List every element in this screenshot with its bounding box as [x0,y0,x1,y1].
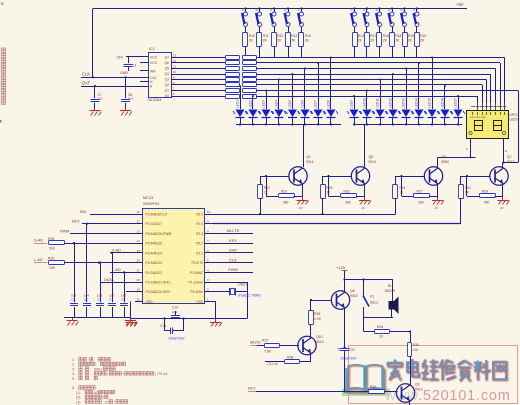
svg-text::: : [96,363,97,367]
svg-text:DAT: DAT [82,81,91,86]
svg-text:C14: C14 [172,306,178,310]
svg-text:+12V: +12V [336,265,346,270]
svg-text:VCC: VCC [150,56,158,60]
svg-text:PWM: PWM [60,229,69,233]
svg-text:GND: GND [120,71,128,75]
svg-text:12: 12 [137,220,141,224]
svg-text:C9: C9 [350,348,354,352]
svg-text:LED1: LED1 [236,100,240,108]
svg-text:DAT: DAT [229,248,237,253]
svg-text:R20: R20 [420,34,426,38]
svg-text:LED10: LED10 [363,98,367,108]
svg-text:/70 uA: /70 uA [157,372,168,376]
svg-text:S: S [351,8,353,12]
svg-text:LED8: LED8 [327,100,331,108]
svg-text:R23: R23 [281,190,287,194]
svg-text:100uF/16V: 100uF/16V [168,337,185,341]
svg-text:C5: C5 [121,298,125,302]
svg-text:P0.6/ADC6-PWM: P0.6/ADC6-PWM [146,232,172,236]
svg-text:8550: 8550 [442,160,450,164]
svg-text:S: S [298,8,300,12]
svg-text:LED13: LED13 [402,98,406,108]
svg-text:9015: 9015 [350,294,358,298]
svg-text:P0.2/ADC2: P0.2/ADC2 [146,271,163,275]
svg-text:P0.7/ADC7: P0.7/ADC7 [146,222,163,226]
svg-text:(T)2.4V: (T)2.4V [267,362,279,366]
svg-text:20: 20 [105,400,109,404]
svg-text:12: 12 [173,59,177,63]
svg-text:P2.5: P2.5 [196,213,203,217]
svg-text:140: 140 [413,348,419,352]
svg-text:8Ω/2W: 8Ω/2W [385,289,395,293]
svg-text:10K: 10K [49,247,56,251]
svg-text:1.2K: 1.2K [314,317,322,321]
svg-text:19: 19 [137,288,141,292]
svg-text:R38: R38 [287,356,293,360]
svg-text:104: 104 [172,310,177,314]
svg-text:P2.2: P2.2 [196,242,203,246]
svg-text:R11: R11 [263,34,269,38]
svg-text:10: 10 [207,210,211,214]
svg-text:R16: R16 [383,34,389,38]
svg-text:S: S [363,8,365,12]
svg-text:P2.4: P2.4 [196,222,203,226]
svg-text:P2.3: P2.3 [196,232,203,236]
svg-text:S: S [388,8,390,12]
svg-text:C2: C2 [84,298,88,302]
svg-text:SH69P43: SH69P43 [143,202,159,206]
svg-text:9014: 9014 [306,160,314,164]
svg-text:Q4: Q4 [165,72,170,76]
svg-text:Q9: Q9 [415,383,420,387]
svg-text:+5V: +5V [456,2,464,7]
svg-text:C1: C1 [71,298,75,302]
svg-text:S: S [270,8,272,12]
svg-text:VSS: VSS [196,300,203,304]
svg-text:WR: WR [150,70,156,74]
svg-text:R31: R31 [465,186,471,190]
svg-text:IN0: IN0 [80,210,86,214]
svg-text:P1.0/Xin: P1.0/Xin [191,290,204,294]
svg-text:R28: R28 [482,190,488,194]
svg-text:R10: R10 [249,34,255,38]
svg-text:PWM: PWM [228,267,238,272]
svg-text:7.5K: 7.5K [264,350,272,354]
svg-text:LED5: LED5 [510,118,518,122]
svg-text:2K: 2K [408,39,413,43]
svg-text:Q5: Q5 [369,155,374,159]
svg-text:Q5: Q5 [165,67,170,71]
svg-text:LED7: LED7 [314,100,318,108]
svg-text:R14: R14 [358,34,364,38]
svg-text:C3: C3 [132,64,136,68]
svg-text:X'tal(32.768K): X'tal(32.768K) [237,294,261,298]
svg-text:13: 13 [137,229,141,233]
svg-text:5.: 5. [72,377,75,381]
svg-text:2V: 2V [362,206,366,210]
svg-text:2K: 2K [358,39,363,43]
svg-text:Q10: Q10 [316,335,323,339]
svg-text:P2.1: P2.1 [196,251,203,255]
svg-text::: : [90,377,91,381]
svg-text:OSC1: OSC1 [238,283,247,287]
svg-text:LED2: LED2 [249,100,253,108]
svg-text:LED17: LED17 [454,98,458,108]
svg-text:10: 10 [173,70,177,74]
svg-text:3.: 3. [72,367,75,371]
svg-text:KEY: KEY [72,220,80,224]
svg-text:/: / [114,400,115,404]
svg-text:2K: 2K [370,39,375,43]
svg-text::: : [94,358,95,362]
svg-text:+: + [122,372,124,376]
svg-text:18: 18 [137,278,141,282]
svg-text:20: 20 [137,297,141,301]
svg-text:R27: R27 [417,190,423,194]
svg-text:S: S [376,8,378,12]
svg-text:+5V: +5V [116,56,123,60]
svg-text:CLK: CLK [82,72,90,77]
svg-text:B: B [1,1,4,6]
svg-text:P2.0/T0: P2.0/T0 [191,261,203,265]
svg-text:P0.4/ADC4: P0.4/ADC4 [146,251,163,255]
svg-text:LED11: LED11 [376,98,380,108]
svg-text:13: 13 [173,54,177,58]
svg-text::: : [90,372,91,376]
svg-text:10K: 10K [49,266,56,270]
svg-text:P1.5/INT: P1.5/INT [190,271,203,275]
svg-text:(2): (2) [76,396,80,400]
svg-text:LED3: LED3 [262,100,266,108]
svg-text:R18: R18 [395,34,401,38]
svg-text:): ) [155,372,156,376]
svg-text:MCU1: MCU1 [143,196,154,200]
svg-text:R15: R15 [305,34,311,38]
svg-text:Q1: Q1 [165,89,170,93]
svg-text:9013: 9013 [316,340,324,344]
svg-text:2V: 2V [500,206,504,210]
svg-text:LED14: LED14 [415,98,419,108]
svg-text:1.: 1. [72,358,75,362]
svg-text:100uF/16V: 100uF/16V [340,357,357,361]
svg-text:R35: R35 [314,312,320,316]
svg-text:P3.0/ADC0-INT0: P3.0/ADC0-INT0 [146,290,171,294]
svg-text:S: S [401,8,403,12]
svg-text:C3: C3 [97,298,101,302]
svg-text:6961: 6961 [94,367,102,371]
svg-text:L-AD: L-AD [112,268,121,272]
svg-text:C13: C13 [160,324,166,328]
svg-text:R13: R13 [291,34,297,38]
svg-text:2.: 2. [72,363,75,367]
svg-text:9015: 9015 [507,160,515,164]
svg-text:R36: R36 [413,343,419,347]
svg-text:KEY: KEY [248,387,256,391]
svg-text:9014: 9014 [369,160,377,164]
svg-text:2K: 2K [395,39,400,43]
svg-text:Q7: Q7 [165,56,170,60]
svg-text:Q6: Q6 [165,61,170,65]
svg-text:LED9: LED9 [350,100,354,108]
svg-text:102: 102 [128,97,133,101]
svg-text:2K: 2K [263,39,268,43]
svg-text:560: 560 [346,201,352,205]
svg-text:S: S [242,8,244,12]
svg-text:1K: 1K [379,335,384,339]
svg-text:Q7: Q7 [507,155,512,159]
svg-text:S: S [284,8,286,12]
svg-text:(1): (1) [76,391,80,395]
svg-text:102: 102 [98,97,103,101]
svg-text:2K: 2K [277,39,282,43]
svg-text:LED4: LED4 [275,100,279,108]
svg-text:R25: R25 [327,186,333,190]
svg-text:2K: 2K [420,39,425,43]
svg-text:2V: 2V [435,206,439,210]
svg-text:Q4: Q4 [306,155,311,159]
svg-text:KEY: KEY [229,238,237,243]
svg-text:LED15: LED15 [428,98,432,108]
svg-text:MU-TE: MU-TE [227,228,240,233]
svg-text:R40: R40 [370,385,376,389]
svg-text:R34: R34 [377,325,383,329]
svg-text:5: 5 [102,396,104,400]
svg-text:16: 16 [137,259,141,263]
svg-text:Q6: Q6 [442,155,447,159]
svg-text:Q2: Q2 [165,83,170,87]
svg-text:V-AD: V-AD [112,249,121,253]
svg-text:a b c d e f g p: a b c d e f g p [470,115,486,119]
svg-text:2K: 2K [305,39,310,43]
svg-text:11: 11 [137,210,140,214]
svg-text:,: , [102,400,103,404]
svg-text:R17: R17 [370,34,376,38]
svg-text:Q8: Q8 [350,289,355,293]
svg-text:VCC: VCC [150,61,158,65]
svg-text:L-AD: L-AD [34,258,43,262]
svg-text:S: S [413,8,415,12]
svg-text:R22: R22 [264,186,270,190]
svg-text:K1: K1 [370,295,374,299]
svg-text:CLK: CLK [229,257,237,262]
svg-text:R12: R12 [277,34,283,38]
svg-text:560: 560 [283,201,289,205]
svg-text:BL1: BL1 [388,284,394,288]
svg-text:2K: 2K [383,39,388,43]
svg-text:P2.6/AD6/CLO: P2.6/AD6/CLO [146,213,168,217]
svg-text:P1.1/Xout: P1.1/Xout [189,281,204,285]
svg-text:P0.3/ADC3: P0.3/ADC3 [146,261,163,265]
svg-text:MUTE: MUTE [250,341,261,345]
svg-text:R24: R24 [400,186,406,190]
svg-text:560: 560 [484,201,490,205]
svg-text::: : [90,367,91,371]
svg-text::: : [96,386,97,390]
svg-text:LED12: LED12 [389,98,393,108]
svg-text:Q3: Q3 [165,78,170,82]
svg-text:C4: C4 [109,298,113,302]
svg-text:8GL2: 8GL2 [370,301,378,305]
svg-text:14: 14 [137,239,141,243]
svg-text:LED16: LED16 [441,98,445,108]
svg-text:Q0: Q0 [165,94,170,98]
svg-text:4.: 4. [72,372,75,376]
svg-text:(3): (3) [76,400,80,404]
svg-text:2V: 2V [299,206,303,210]
svg-text:IC1: IC1 [149,47,155,51]
svg-text:560: 560 [419,201,425,205]
svg-text:R19: R19 [408,34,414,38]
svg-text:R37: R37 [262,339,268,343]
svg-text:S: S [256,8,258,12]
svg-text:6.: 6. [72,386,75,390]
svg-text:VDD: VDD [146,300,154,304]
svg-text:LED6: LED6 [301,100,305,108]
svg-text:2K: 2K [249,39,254,43]
svg-text:17: 17 [137,268,141,272]
svg-text:P3.1/ADC1-INT1: P3.1/ADC1-INT1 [146,281,171,285]
svg-text:2K: 2K [291,39,296,43]
svg-text:74LS164: 74LS164 [147,98,161,102]
svg-text:15: 15 [137,249,141,253]
svg-text:P0.5/ADC5: P0.5/ADC5 [146,242,163,246]
svg-text:S-AD: S-AD [34,239,43,243]
svg-text:9013: 9013 [415,388,423,392]
svg-text:DPY1: DPY1 [510,113,519,117]
svg-text:11: 11 [173,65,176,69]
svg-text:R26: R26 [344,190,350,194]
svg-text:LED5: LED5 [288,100,292,108]
